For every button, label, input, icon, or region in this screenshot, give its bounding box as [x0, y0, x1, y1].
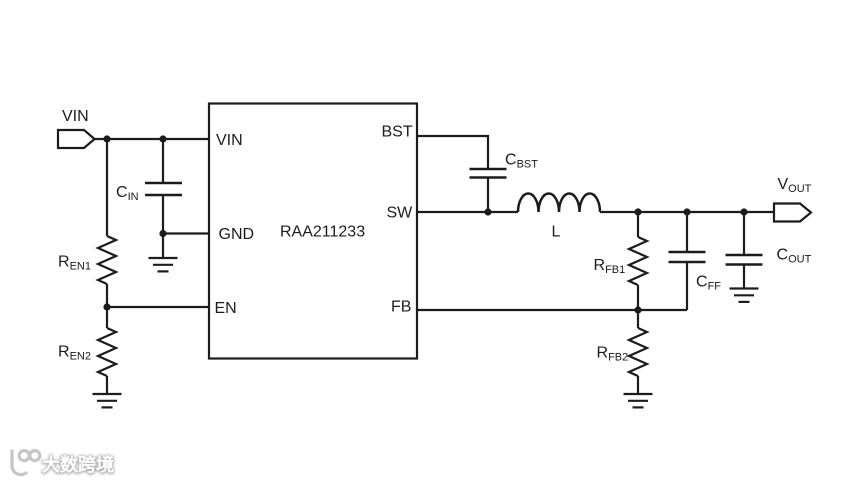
wire SW rail: [417, 211, 518, 213]
ground (below REN2): [93, 394, 122, 407]
svg-text:VIN: VIN: [62, 108, 89, 125]
wire REN1 to EN node: [106, 284, 108, 307]
port VOUT: [774, 204, 811, 222]
svg-text:CBST: CBST: [505, 152, 538, 171]
wire CIN top lead: [162, 139, 164, 183]
IC U1 RAA211233: [209, 104, 417, 359]
node FB junction: [634, 306, 641, 313]
svg-text:L: L: [552, 224, 561, 241]
inductor L: [518, 194, 600, 213]
wire REN1 upper lead: [106, 139, 108, 236]
svg-text:FB: FB: [391, 299, 411, 316]
svg-text:RAA211233: RAA211233: [280, 224, 365, 241]
node VOUT/COUT junction: [740, 208, 747, 215]
capacitor CBST: [470, 169, 507, 178]
wire GND: [163, 232, 209, 234]
svg-text:BST: BST: [382, 124, 413, 141]
svg-text:VIN: VIN: [216, 132, 243, 149]
wire REN2 upper lead: [106, 307, 108, 328]
node SW/CBST junction: [484, 208, 491, 215]
svg-text:RFB2: RFB2: [597, 345, 629, 364]
ground (below RFB2): [624, 394, 653, 407]
node VOUT/RFB1 junction: [634, 208, 641, 215]
svg-text:COUT: COUT: [777, 246, 812, 265]
ground (below CIN): [149, 258, 178, 271]
svg-text:REN2: REN2: [58, 344, 91, 363]
svg-text:GND: GND: [219, 226, 255, 243]
wire CFF bottom lead: [686, 262, 688, 310]
node VIN/REN1 junction: [103, 135, 110, 142]
wire COUT top lead: [743, 212, 745, 255]
wire RFB1 upper lead: [637, 212, 639, 237]
svg-text:CIN: CIN: [116, 184, 139, 203]
wire REN2 to ground: [106, 376, 108, 394]
capacitor COUT: [726, 255, 763, 265]
svg-text:CFF: CFF: [696, 274, 721, 293]
wire EN: [107, 306, 209, 308]
wire GND node to ground: [162, 234, 164, 259]
resistor RFB1: [629, 237, 647, 285]
svg-text:EN: EN: [215, 300, 237, 317]
svg-text:VOUT: VOUT: [778, 176, 812, 195]
wire FB: [417, 309, 687, 311]
capacitor CFF: [669, 252, 706, 262]
wire VOUT rail: [600, 211, 774, 213]
capacitor CIN: [145, 183, 182, 195]
wire RFB2 upper lead: [637, 310, 639, 328]
wire RFB1 lower lead: [637, 285, 639, 310]
port VIN: [58, 130, 95, 148]
svg-text:REN1: REN1: [58, 254, 91, 273]
wire CBST bottom lead: [487, 178, 489, 213]
svg-text:SW: SW: [387, 204, 414, 221]
resistor RFB2: [629, 328, 647, 376]
svg-text:大数跨境: 大数跨境: [42, 454, 114, 475]
wire CIN bottom lead: [162, 195, 164, 234]
node EN junction: [103, 303, 110, 310]
resistor REN2: [98, 328, 116, 376]
ground (below COUT): [730, 289, 759, 302]
wire VIN rail: [95, 138, 210, 140]
node VIN/CIN junction: [159, 135, 166, 142]
watermark logo: [12, 450, 40, 475]
wire CFF top lead: [686, 212, 688, 252]
wire RFB2 to ground: [637, 376, 639, 394]
node VOUT/CFF junction: [683, 208, 690, 215]
resistor REN1: [98, 236, 116, 284]
node GND junction: [159, 230, 166, 237]
wire COUT to ground: [743, 265, 745, 289]
wire BST: [417, 136, 488, 169]
svg-text:RFB1: RFB1: [594, 257, 626, 276]
